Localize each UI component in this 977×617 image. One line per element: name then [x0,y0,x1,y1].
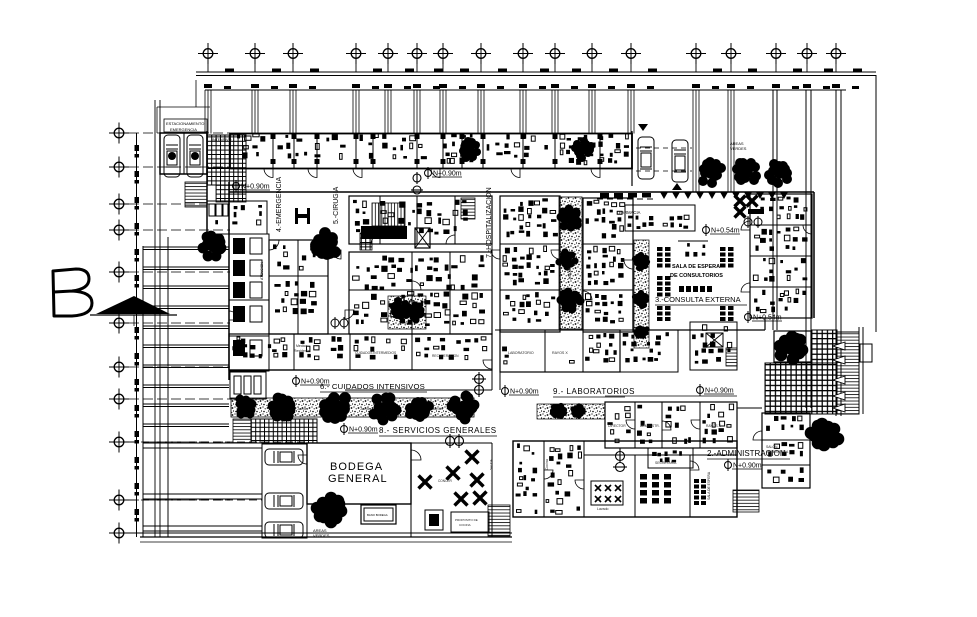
grid tick below marker 13 [695,63,697,72]
top grid marker 5 [378,43,398,64]
top grid marker 17 [826,43,846,64]
level N+0.54m consulta [703,224,741,236]
svg-text:ADMINISTR.: ADMINISTR. [640,424,660,428]
svg-text:N+0.90m: N+0.90m [433,171,462,178]
svg-text:GENERAL: GENERAL [328,473,388,485]
door arc [662,421,671,430]
concer north wall [411,442,492,444]
consultorio furniture 4 [754,289,806,313]
left wing west wall [206,131,208,235]
triage office [229,201,267,234]
exit stairs right [488,505,510,536]
patio tiled hatch HALL [765,363,837,414]
top grid marker 7 [433,43,453,64]
H operating table [295,208,310,224]
tree at areas verdes 2 [732,158,761,185]
shrub at labs garden 2 [570,403,585,418]
door arc [624,260,633,269]
concer x mark [447,467,460,480]
door arc [583,291,592,300]
door arc [741,283,750,292]
level N+0.90m admin [725,459,763,471]
svg-text:BANO BODEGA: BANO BODEGA [367,513,388,517]
svg-text:FARMACIA: FARMACIA [619,210,641,215]
estacionamiento label box [164,119,207,132]
top grid marker 6 [407,43,427,64]
trash dark [429,514,439,526]
icu room furniture 3 [354,336,406,359]
operating room equipment [353,200,468,235]
level N+0.90m labs east [697,384,735,396]
left grid marker 3 [109,194,129,215]
right boundary double lines [772,90,774,330]
level N+0.90m icu [293,375,331,387]
door symbols at concer top [446,434,464,448]
svg-text:INTENSIVO: INTENSIVO [212,138,232,142]
jardin vertical strip [559,197,582,329]
patient beds north 2 [560,133,629,164]
svg-text:8.- SERVICIOS GENERALES: 8.- SERVICIOS GENERALES [379,426,497,435]
top grid marker 13 [686,43,706,64]
corridor east wall [499,196,501,390]
tree below patio [805,418,845,452]
pharmacy shelves [628,215,690,229]
grid tick below marker 4 [355,63,357,72]
cirugia support rooms [349,252,492,334]
car in driveway 1 [638,137,654,179]
labs south wall [620,447,737,449]
consultorio furniture 1 [760,197,807,220]
bed 5 observation [233,340,245,356]
triage furniture [232,205,262,225]
bodega general room [307,443,411,504]
entry x mark 2 [747,196,758,207]
top grid marker 3 [283,43,303,64]
rooms left of patio furniture [692,325,732,364]
hospitalizacion rooms east [583,198,633,332]
bed 3 observation [233,282,245,298]
tree in cirugia garden [390,297,412,320]
door arc [332,250,341,259]
icu south wall [229,369,492,371]
entry x mark 1 [735,196,746,207]
consultorio furniture 2 [755,227,808,251]
tree in consulta jardin 1 [632,252,650,271]
grid tick below marker 2 [254,63,256,72]
left grid extension 11 [129,532,230,534]
tree at jardin strip [319,392,351,424]
top grid marker 14 [721,43,741,64]
door arc [483,360,492,369]
tree in consulta jardin 3 [633,325,649,338]
door arc [353,169,362,178]
left grid extension 3 [129,203,230,205]
driveway left wall [631,131,633,186]
level N+0.90m servicios [341,423,379,435]
grid tick below marker 1 [207,63,209,72]
svg-text:ATENCION: ATENCION [260,262,264,280]
door arc [551,250,560,259]
datum row 500 [129,499,262,501]
room band dividers [273,134,600,169]
admin stairs [733,490,759,512]
top grid marker 9 [513,43,533,64]
grid tick below marker 5 [387,63,389,72]
grid tick below marker 9 [522,63,524,72]
emergencia furniture upper [273,244,316,270]
tree at jardin strip [447,391,480,425]
door arc [511,169,520,178]
pharmacy shelves [625,205,695,231]
parked car 2 [265,493,303,509]
tree at areas verdes 1 [698,157,726,188]
left grid marker 5 [109,262,129,283]
svg-text:PROPOSITO DE: PROPOSITO DE [455,518,478,522]
left grid extension 4 [129,229,230,231]
bed 4 observation [233,306,245,322]
top grid marker 12 [621,43,641,64]
rooms south of consulta [620,330,678,372]
toilet fixtures [215,220,218,224]
fence dash row [600,193,651,198]
datum row 442 [129,441,307,443]
toilet stalls block [207,201,229,234]
car in driveway 2 [672,140,688,182]
svg-text:Lavado: Lavado [597,507,609,511]
stairs by entry [185,182,207,207]
concer west wall [410,443,412,537]
svg-text:RECUPERACION: RECUPERACION [432,354,459,358]
svg-text:N+0.54m: N+0.54m [753,315,782,322]
bano de bodega [361,505,396,524]
cirugia operating rooms [349,196,492,244]
corridor datum at hospitalizacion [411,172,423,194]
tree at jardin strip [405,397,434,422]
svg-text:SALA DE ESPERA: SALA DE ESPERA [707,471,711,500]
dark equipment room [443,134,474,164]
admin office furniture [637,405,652,444]
left grid extension 8 [129,398,230,400]
xray machine dark cluster 1 [459,137,481,162]
svg-text:Medico: Medico [296,344,307,348]
svg-text:Cocina: Cocina [545,459,549,470]
svg-text:ENFERMERIA: ENFERMERIA [766,450,789,454]
top datum line 2 [196,75,876,77]
garden strip with trees [231,398,474,417]
stall room below observation [230,372,266,399]
garage west wall [142,246,144,537]
svg-text:BODEGA: BODEGA [330,461,383,473]
svg-text:SALON: SALON [766,445,778,449]
parked car 3 [265,522,303,538]
tiled entry floor hatch [207,135,246,185]
salon furniture [767,467,804,482]
door arc [690,461,699,470]
car in emergency stall 1 [164,135,180,177]
grid tick below marker 6 [416,63,418,72]
svg-text:N+0.90m: N+0.90m [510,389,539,396]
bottom dimension line [140,541,512,543]
patio landing [860,344,872,362]
top grid marker 2 [245,43,265,64]
level N+0.90m corridor [425,167,463,179]
xray room equipment [585,333,617,363]
door arc [411,450,421,460]
svg-text:Jardin: Jardin [567,267,572,280]
laboratorio rayos x row [500,330,620,372]
door handle symbols [744,216,762,228]
hospitalizacion patient rooms west [500,196,560,332]
grid tick below marker 15 [775,63,777,72]
grid tick below marker 16 [806,63,808,72]
door arc [264,169,273,178]
admin rooms block [762,413,810,488]
bed 2 observation [233,260,245,276]
icu room furniture 4 [415,337,487,360]
top datum line 3 [205,89,846,91]
big letter B [53,269,92,316]
door arc [544,470,553,479]
rayos bench [570,361,575,364]
door arc [298,455,307,464]
patio upper balcony hatch [811,330,837,363]
consultorio furniture 3 [753,258,807,282]
bodega south rooms [307,504,411,537]
bottom datum row [126,532,512,534]
svg-text:DIRECTOR: DIRECTOR [608,424,626,428]
left grid extension 6 [129,322,230,324]
concer x mark [466,451,479,464]
grid tick below marker 3 [292,63,294,72]
consultorios right column [750,194,812,318]
entry counter bar [748,209,764,214]
top grid marker 8 [471,43,491,64]
tree at left wing [198,231,227,262]
corridor datum symbols [472,372,486,397]
svg-text:ESTACIONAMIENTO: ESTACIONAMIENTO [166,121,204,126]
door arc [269,240,279,250]
level N+0.90m entry [233,180,271,192]
svg-text:SALA DE ESPERA: SALA DE ESPERA [672,264,720,270]
second band north wall [229,191,592,193]
left grid marker 2 [109,157,129,178]
top grid marker 10 [545,43,565,64]
top grid marker 15 [766,43,786,64]
secretaria furniture [652,450,682,462]
svg-text:LABORATORIO: LABORATORIO [508,351,534,355]
waiting chairs columns [657,247,734,321]
top datum line 1 [196,71,876,73]
icu block [229,334,492,370]
xray machine dark cluster 2 [571,137,595,162]
corridor west wall [491,196,493,390]
svg-text:Residente: Residente [294,349,310,353]
label box [364,508,393,521]
tree in jardin strip 1 [557,205,582,232]
main left dimension line [136,133,138,537]
svg-text:N+0.90m: N+0.90m [705,388,734,395]
cocina furniture [516,443,538,514]
svg-text:DE CONSULTORIOS: DE CONSULTORIOS [670,273,723,279]
grid tick below marker 14 [730,63,732,72]
grid tick below marker 10 [554,63,556,72]
portico column lines [205,90,734,192]
laboratorios block [605,402,737,448]
door arc [308,169,317,178]
left wing east wall [228,182,230,380]
lavado furniture [546,445,581,514]
door arc [591,169,600,178]
stair ladder in cirugia [372,203,405,226]
concer x mark [455,493,468,506]
door arc [431,169,440,178]
laboratorio bench [502,347,509,364]
building bottom edge line [140,536,512,538]
driveway lane dashed lines [636,147,692,149]
left grid marker 10 [109,490,129,511]
connector line [156,107,158,133]
door arc [691,420,700,429]
servicios block outline [513,441,737,517]
left grid marker 1 [109,123,129,144]
door arc [345,310,354,319]
door arc [803,225,812,234]
svg-text:CUIDADOS INTERMEDIOS: CUIDADOS INTERMEDIOS [355,351,397,355]
south rooms furniture [623,332,669,362]
svg-text:SALIDA: SALIDA [489,459,493,470]
patio stairs strip [837,332,859,414]
tree in jardin strip 3 [557,288,585,314]
cirugia support furniture [353,255,485,326]
emergency parking stalls box [160,133,207,174]
svg-text:N+0.90m: N+0.90m [349,427,378,434]
top grid marker 1 [198,43,218,64]
scrub sinks [361,226,407,239]
toilet stalls [209,204,215,216]
patient beds center 3 [504,292,556,323]
pharmacy dashed wall [597,198,657,200]
proposito de cocina room [451,512,489,532]
door arc [371,235,380,244]
parked car 1 [265,449,303,465]
north room band outer wall [230,134,632,169]
icu room furniture 1 [232,337,287,358]
level N+0.54m south [745,311,783,323]
tree at jardin strip [369,393,402,426]
left grid marker 11 [109,523,129,544]
svg-text:RAYOS X: RAYOS X [706,424,722,428]
svg-text:COCINA: COCINA [459,523,471,527]
tree in cirugia garden 2 [406,301,424,323]
consulta hall south wall [633,329,765,331]
small or hatch [360,233,372,250]
grid tick below marker 17 [835,63,837,72]
left grid extension 1 [129,132,230,134]
patient beds center 1 [503,198,558,237]
car in emergency stall 2 [187,135,203,177]
reception counter [685,243,705,257]
jardin strip left of consulta [634,240,649,348]
tree at jardin strip [236,395,257,419]
door arc [575,480,584,489]
solid roof triangle symbol [96,296,170,314]
door arc [412,281,421,290]
left dimension tick marks [135,145,140,522]
rooms left of patio [690,322,737,370]
svg-text:SECRETARIA: SECRETARIA [655,461,677,465]
consulta externa north wall [592,191,814,193]
ramp grid hatch [251,419,317,443]
left grid marker 8 [109,389,129,410]
car lane box [262,444,307,538]
east rooms furniture 1 [586,200,625,238]
observation rooms with beds [229,234,269,371]
admin furniture 1 [766,416,804,431]
svg-text:Jardin: Jardin [297,406,308,411]
patio connector wall [764,318,766,330]
tree at jardin strip [268,393,296,422]
director office furniture [607,407,630,443]
grid tick below marker 11 [591,63,593,72]
svg-text:9.- LABORATORIOS: 9.- LABORATORIOS [553,387,635,396]
garage lane lines [143,247,262,531]
stair east rail [858,327,860,414]
secretaria bay [648,448,693,468]
svg-text:EMERGENCIA: EMERGENCIA [170,127,197,132]
left grid extension 2 [129,166,230,168]
svg-text:N+0.90m: N+0.90m [241,184,270,191]
concer x mark [474,492,487,505]
door arc [753,431,762,440]
labs north outer wall [605,395,737,397]
svg-text:VERDES: VERDES [730,146,747,151]
tree between emergencia and cirugia [310,227,341,260]
datum circles by labs [613,449,627,472]
tree in consulta jardin 2 [632,290,649,309]
xray rooms furniture [278,134,346,159]
door arc [626,420,635,429]
column dash marks row 2 [204,84,859,89]
door arc [229,311,238,320]
espera chair ladders [694,479,706,505]
east rooms furniture 2 [586,246,624,285]
corridor door symbols [331,317,348,329]
entry x mark 3 [735,207,746,218]
ramp garden inside cirugia [388,296,426,329]
parking wheel circles [168,152,176,160]
svg-text:4.-EMERGENCIA: 4.-EMERGENCIA [276,176,283,232]
trash room [425,510,443,530]
patio door wedges [833,342,845,350]
svg-text:VERDES: VERDES [313,533,330,538]
patient beds center 2 [503,246,555,285]
tree at patio [774,331,809,366]
concer x mark [471,474,484,487]
left grid extension 9 [129,441,230,443]
top grid marker 11 [582,43,602,64]
grid tick below marker 8 [480,63,482,72]
x bed [706,333,723,347]
svg-text:CONCER: CONCER [438,479,453,483]
icu room furniture 2 [299,336,343,359]
patio tree planter [774,331,811,362]
emergencia rooms block [269,240,328,334]
door jamb marks on band dividers [271,134,603,164]
exam rooms furniture [360,133,427,159]
left grid marker 6 [109,313,129,334]
garden strip by labs [537,404,605,419]
left grid extension 7 [129,366,230,368]
